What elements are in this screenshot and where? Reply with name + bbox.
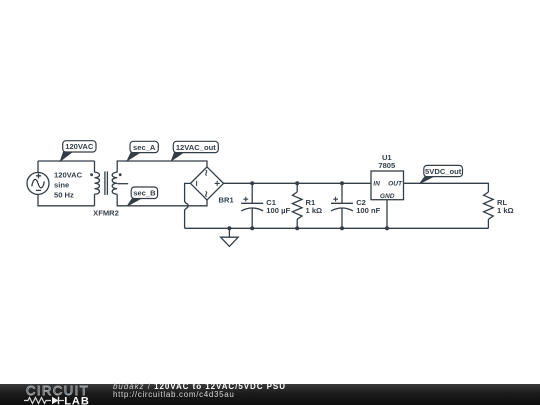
regulator U1 body: [371, 171, 404, 200]
svg-text:1 kΩ: 1 kΩ: [497, 206, 514, 215]
svg-text:BR1: BR1: [219, 196, 235, 205]
bridge BR1 ac mark bottom: [206, 192, 207, 197]
wire U1 OUT to RL: [404, 183, 489, 192]
voltage source V1 value label: [54, 170, 83, 199]
wire secondary top to bridge: [117, 161, 207, 172]
bridge BR1 plus mark: [215, 181, 220, 186]
transformer XFMR2 center tap stub: [117, 183, 128, 185]
resistor RL: [484, 192, 494, 219]
CircuitLab logo resistor-diode glyph and LAB: [24, 396, 94, 405]
transformer XFMR2 secondary polarity dot: [119, 173, 122, 176]
bridge BR1 ac mark top: [206, 170, 207, 175]
wire C2 top: [341, 183, 343, 203]
wire secondary bottom to bridge: [117, 194, 207, 206]
transformer XFMR2 core: [105, 171, 108, 195]
svg-text:12VAC_out: 12VAC_out: [176, 143, 216, 152]
node flag 5VDC_out: [420, 165, 463, 183]
svg-text:120VAC: 120VAC: [65, 142, 94, 151]
regulator U1 name labels: [378, 153, 396, 170]
svg-text:IN: IN: [373, 181, 380, 188]
svg-text:XFMR2: XFMR2: [93, 208, 119, 217]
capacitor C2 labels: [356, 198, 380, 215]
wire primary bottom-left: [38, 194, 95, 205]
wire C1 top: [251, 183, 253, 203]
transformer XFMR2 secondary winding: [112, 172, 117, 194]
transformer XFMR2 primary winding: [95, 172, 100, 194]
junction dots bottom rail: [227, 226, 389, 230]
svg-text:120VAC: 120VAC: [54, 170, 83, 179]
node flag sec_B: [128, 187, 158, 206]
footer bar: [0, 384, 540, 405]
svg-text:5VDC_out: 5VDC_out: [425, 167, 462, 176]
wire primary stem top: [94, 161, 96, 172]
wire C1 bottom: [251, 208, 253, 228]
node flag 120VAC: [60, 141, 96, 161]
svg-text:100 µF: 100 µF: [266, 206, 290, 215]
svg-text:100 nF: 100 nF: [356, 206, 380, 215]
wire bridge left to ground rail (with hop): [185, 183, 191, 228]
node flag sec_A: [127, 141, 158, 160]
svg-text:sine: sine: [54, 180, 69, 189]
wire bottom ground rail: [185, 227, 489, 229]
footer title text: [113, 383, 286, 391]
ground: [221, 228, 239, 246]
resistor R1: [292, 192, 302, 219]
wire R1 bottom: [296, 219, 298, 228]
wire primary top: [38, 160, 95, 162]
CircuitLab logo wordmark: [26, 383, 89, 398]
wire U1 GND pin: [386, 200, 388, 229]
svg-text:50 Hz: 50 Hz: [54, 190, 74, 199]
svg-text:GND: GND: [380, 193, 395, 200]
regulator U1 pin labels: [373, 181, 403, 200]
voltage source V1: [27, 172, 49, 194]
bridge rectifier BR1 body: [191, 167, 224, 200]
capacitor C2: [331, 197, 353, 211]
resistor R1 labels: [306, 198, 323, 215]
capacitor C1 labels: [266, 198, 290, 215]
junction dots top rail: [250, 181, 344, 185]
resistor RL labels: [497, 198, 514, 215]
svg-text:7805: 7805: [378, 161, 396, 170]
wire R1 top: [296, 183, 298, 192]
wire bridge right to U1 IN rail: [224, 182, 372, 184]
svg-text:LAB: LAB: [64, 396, 90, 405]
svg-text:OUT: OUT: [388, 181, 403, 188]
capacitor C1: [241, 197, 263, 211]
svg-text:1 kΩ: 1 kΩ: [306, 206, 323, 215]
footer url text: [113, 391, 235, 399]
svg-text:sec_A: sec_A: [133, 143, 156, 152]
wire primary stem bottom: [94, 194, 96, 206]
wire primary left: [37, 161, 39, 172]
svg-text:sec_B: sec_B: [133, 189, 156, 198]
wire RL bottom: [487, 219, 489, 228]
node flag 12VAC_out: [172, 141, 219, 160]
bridge BR1 minus mark: [196, 181, 198, 186]
wire C2 bottom: [341, 208, 343, 228]
transformer XFMR2 primary polarity dot: [90, 173, 93, 176]
